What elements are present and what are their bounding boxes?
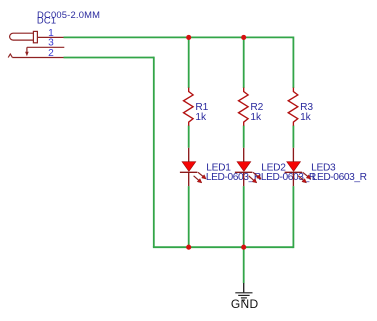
- wire LED2 to bottom rail: [243, 186, 245, 247]
- LED3 triangle: [287, 162, 301, 172]
- ground bar 3: [241, 297, 247, 299]
- connector DC1 pin 3 line: [27, 46, 64, 48]
- connector DC1 switch arrow: [26, 47, 28, 52]
- LED3 cathode bar: [285, 171, 303, 173]
- wire GND drop: [243, 247, 245, 283]
- wire R3 to LED3: [292, 126, 294, 148]
- LED3 emission arrow a: [303, 172, 309, 177]
- wire LED3 to bottom rail: [292, 186, 294, 248]
- LED2 emission arrow b: [249, 176, 255, 182]
- wire right drop to R3: [292, 37, 294, 89]
- wire top rail to R1: [188, 37, 190, 88]
- wire bottom rail: [153, 246, 294, 248]
- LED1: [180, 148, 261, 186]
- LED3: [285, 148, 367, 186]
- LED3 anode stem: [292, 148, 294, 162]
- LED1 cathode stem: [188, 172, 190, 186]
- svg-text:1k: 1k: [250, 112, 262, 123]
- ground symbol: [231, 283, 259, 311]
- wire LED1 to bottom rail: [188, 186, 190, 247]
- wire left drop: [153, 57, 155, 248]
- wire R1 to LED1: [188, 126, 190, 148]
- svg-text:1k: 1k: [300, 112, 312, 123]
- wire pin1 top rail: [64, 36, 294, 38]
- LED3 cathode stem: [292, 172, 294, 186]
- LED1 cathode bar: [180, 171, 198, 173]
- LED2 cathode stem: [243, 172, 245, 186]
- resistor R3: [288, 88, 298, 126]
- LED2 triangle: [237, 162, 251, 172]
- junction dot bottom-2: [241, 245, 246, 250]
- ground bar 1: [235, 292, 252, 294]
- junction dot top-2: [241, 35, 246, 40]
- LED1 triangle: [182, 162, 196, 172]
- svg-text:LED-0603_R: LED-0603_R: [312, 172, 367, 183]
- junction dot bottom-1: [186, 245, 191, 250]
- svg-text:3: 3: [48, 38, 54, 49]
- connector DC1 sleeve rect: [33, 31, 37, 42]
- LED2 cathode bar: [235, 171, 253, 173]
- svg-text:GND: GND: [231, 297, 259, 311]
- ground bar 2: [238, 294, 249, 296]
- wire R2 to LED2: [243, 126, 245, 148]
- LED1 emission arrow b: [194, 176, 200, 182]
- ground stem: [243, 283, 245, 292]
- connector DC1 pin 2 line: [12, 57, 63, 59]
- LED3 emission arrow b: [298, 176, 304, 182]
- ground bar 4: [243, 299, 245, 301]
- connector DC1 pin 1 line: [37, 36, 63, 38]
- wire top rail to R2: [243, 37, 245, 88]
- LED2: [235, 148, 316, 186]
- svg-text:2: 2: [48, 48, 54, 59]
- resistor R1: [184, 88, 194, 126]
- connector DC1 barrel: [10, 33, 34, 40]
- svg-text:1k: 1k: [195, 112, 207, 123]
- LED2 anode stem: [243, 148, 245, 162]
- connector DC1 spring contact: [8, 54, 12, 58]
- wire pin2 horizontal: [64, 57, 154, 59]
- LED2 emission arrow a: [253, 172, 259, 177]
- LED1 anode stem: [188, 148, 190, 162]
- svg-text:DC1: DC1: [37, 15, 56, 26]
- resistor R2: [239, 88, 249, 126]
- junction dot top-1: [186, 35, 191, 40]
- LED1 emission arrow a: [198, 172, 204, 177]
